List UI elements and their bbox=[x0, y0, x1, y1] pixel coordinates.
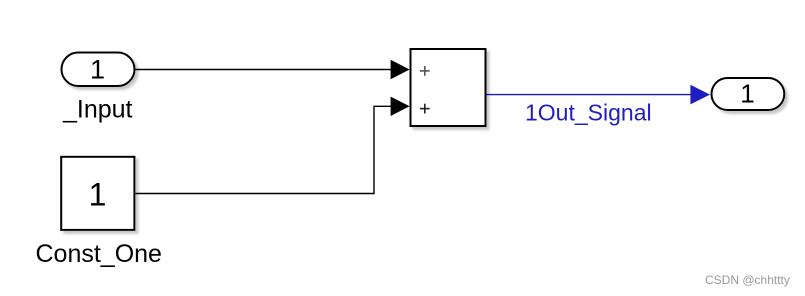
arrowhead into sum input 1 bbox=[391, 60, 410, 79]
outport block bbox=[712, 78, 785, 110]
blue wire from sum to outport bbox=[487, 94, 692, 96]
constant block Const_One bbox=[61, 157, 134, 230]
plus sign input 2 bbox=[420, 104, 430, 114]
svg-text:Const_One: Const_One bbox=[36, 240, 162, 268]
wire from _Input to sum bbox=[136, 69, 392, 71]
sum block U1 bbox=[411, 49, 486, 126]
svg-text:1: 1 bbox=[90, 55, 105, 85]
arrowhead into sum input 2 bbox=[391, 97, 410, 116]
blue arrowhead into outport bbox=[690, 85, 710, 105]
svg-text:1: 1 bbox=[740, 79, 754, 109]
plus sign input 1 bbox=[420, 66, 430, 76]
svg-text:CSDN @chhttty: CSDN @chhttty bbox=[705, 273, 790, 287]
inport block _Input bbox=[62, 53, 135, 87]
wire from Const_One to sum (elbow) bbox=[136, 106, 392, 193]
svg-text:1Out_Signal: 1Out_Signal bbox=[525, 100, 652, 126]
svg-text:_Input: _Input bbox=[62, 96, 133, 124]
svg-text:1: 1 bbox=[89, 177, 107, 213]
